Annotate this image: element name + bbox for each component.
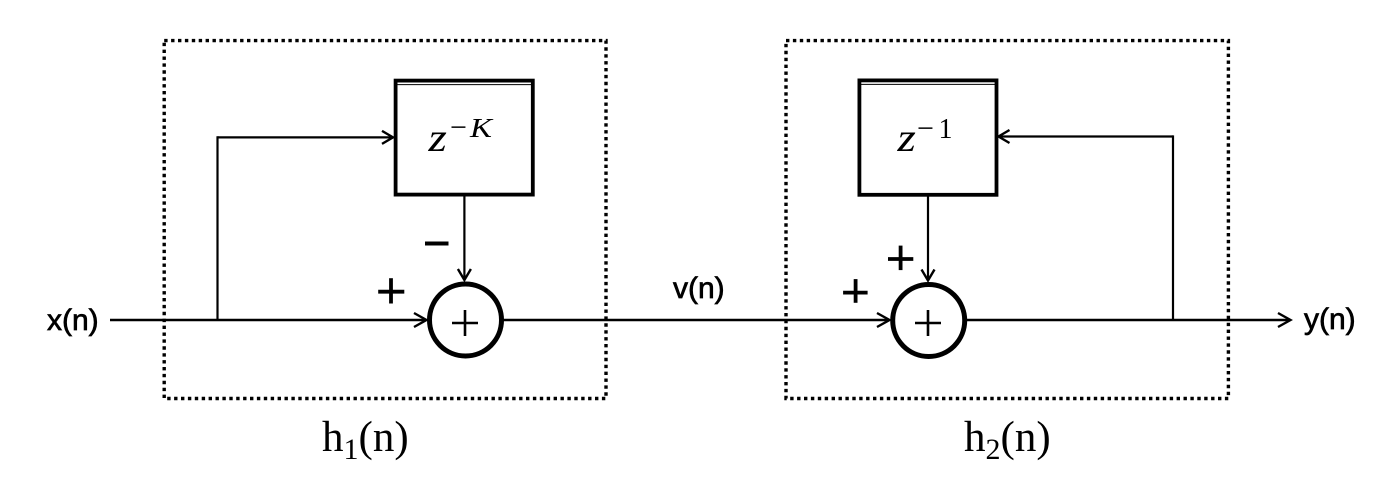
node y(n) (1304, 303, 1356, 336)
svg-text:−: − (450, 111, 467, 144)
label h1(n) (322, 414, 409, 466)
wire tap horizontal into z^-K (218, 131, 394, 144)
svg-text:h1(n): h1(n) (322, 414, 409, 466)
plus sign at U1 input (378, 278, 404, 303)
wire input x(n) to adder U1 (110, 313, 427, 327)
wire z^-K output down into adder U1 (458, 196, 471, 280)
label z^-K (427, 111, 494, 160)
svg-text:−: − (917, 112, 934, 145)
plus sign at U2 feedback input (888, 246, 913, 271)
adder U1 (comb section) (430, 284, 502, 356)
wire v(n): adder U1 to adder U2 (503, 313, 890, 327)
plus sign at U2 input (843, 279, 868, 303)
svg-text:K: K (469, 113, 494, 143)
svg-text:h2(n): h2(n) (964, 414, 1051, 466)
svg-text:x(n): x(n) (47, 304, 99, 337)
svg-text:v(n): v(n) (673, 272, 725, 305)
wire tap vertical up from input node (216, 136, 218, 320)
svg-text:z: z (896, 116, 915, 160)
delay block z^-1 (859, 80, 996, 194)
dashed subsystem box h1 (164, 41, 606, 399)
label h2(n) (964, 414, 1051, 466)
wire z^-1 output down into adder U2 (922, 196, 935, 281)
adder U2 (integrator section) (893, 285, 965, 357)
minus sign at z^-K feed (425, 242, 449, 246)
svg-text:z: z (427, 116, 446, 160)
node v(n) (673, 272, 725, 305)
delay block z^-K (396, 81, 533, 195)
node x(n) (47, 304, 99, 337)
svg-text:1: 1 (939, 114, 953, 145)
wire feedback horizontal into z^-1 (999, 130, 1174, 143)
svg-text:y(n): y(n) (1304, 303, 1356, 336)
wire output to y(n) (966, 313, 1291, 327)
wire feedback vertical up (1172, 135, 1174, 320)
dashed subsystem box h2 (786, 41, 1228, 399)
label z^-1 (896, 112, 952, 160)
